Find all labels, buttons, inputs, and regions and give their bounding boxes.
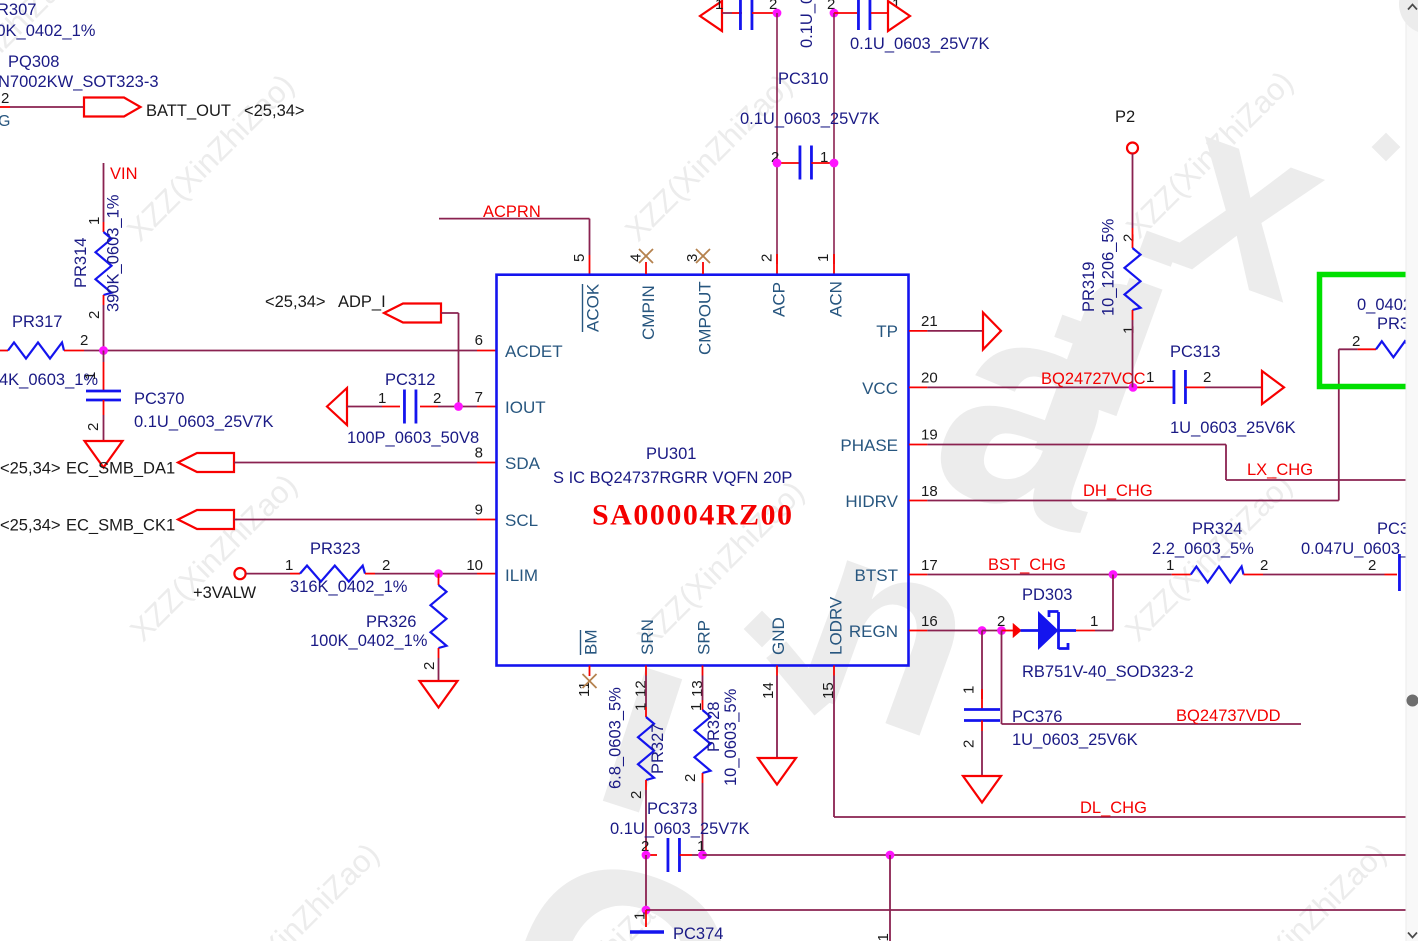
junction node BQ24727VCC bbox=[1129, 383, 1138, 392]
svg-text:2: 2 bbox=[86, 311, 103, 319]
svg-text:10: 10 bbox=[466, 557, 483, 574]
svg-text:P2: P2 bbox=[1115, 108, 1135, 126]
svg-text:17: 17 bbox=[921, 557, 938, 574]
wire PR319 to VCC net bbox=[1132, 320, 1134, 387]
wire PR326 to ground bbox=[438, 658, 440, 681]
wire red stub PC376 pin2 bbox=[981, 721, 983, 732]
resistor PR326 bbox=[431, 585, 447, 648]
wire BATT_OUT net bbox=[10, 106, 84, 108]
resistor PR3xx in green box (clipped) bbox=[1376, 341, 1418, 357]
resistor PR328 bbox=[695, 710, 711, 773]
wire DH_CHG horizontal bbox=[927, 500, 1338, 502]
wire red stub PC310 pin2 bbox=[777, 162, 800, 164]
svg-text:14: 14 bbox=[760, 682, 777, 699]
ground symbol GND pin14 bbox=[758, 758, 796, 785]
svg-text:0.1U_0603_25V7K: 0.1U_0603_25V7K bbox=[610, 820, 749, 838]
svg-text:ACP: ACP bbox=[770, 282, 789, 317]
wire SRN to PR327 bbox=[645, 676, 647, 708]
wire red stub PR314 pin2 bbox=[103, 295, 105, 305]
svg-text:9: 9 bbox=[475, 502, 483, 519]
svg-text:REGN: REGN bbox=[849, 622, 898, 641]
resistor PR327 bbox=[638, 717, 654, 780]
wire red stub ILIM pin10 bbox=[477, 573, 496, 575]
svg-text:2.2_0603_5%: 2.2_0603_5% bbox=[1152, 540, 1254, 558]
wire red stub PC374 pin1 bbox=[645, 910, 647, 927]
svg-text:2: 2 bbox=[961, 740, 978, 748]
capacitor PC376 bbox=[964, 708, 1000, 711]
wire red stub PR324 pin1 bbox=[1172, 574, 1191, 576]
svg-text:100K_0402_1%: 100K_0402_1% bbox=[310, 632, 428, 650]
scrollbar border bbox=[1405, 0, 1407, 941]
scrollbar thumb dot bbox=[1407, 695, 1418, 707]
svg-text:13: 13 bbox=[689, 680, 706, 697]
svg-text:DL_CHG: DL_CHG bbox=[1080, 799, 1147, 817]
svg-text:PC312: PC312 bbox=[385, 371, 435, 389]
resistor PR323 bbox=[300, 566, 365, 582]
svg-text:1: 1 bbox=[1121, 326, 1138, 334]
no-connect X pin 4 bbox=[639, 249, 653, 263]
svg-text:PU301: PU301 bbox=[646, 445, 696, 463]
wire red stub top-right cap pin1 bbox=[871, 12, 888, 14]
capacitor PC373 bbox=[667, 838, 670, 872]
junction node PC373/PR328 bbox=[698, 851, 707, 860]
wire PHASE net bbox=[927, 444, 1226, 446]
svg-text:CMPIN: CMPIN bbox=[639, 285, 658, 340]
wire top-left cap to arrow bbox=[722, 12, 732, 14]
off-page arrow VCC bbox=[1262, 371, 1284, 404]
wire diode anode down bbox=[1001, 631, 1003, 725]
capacitor PC374 top plate bbox=[630, 930, 664, 934]
svg-text:6: 6 bbox=[475, 332, 483, 349]
junction node x646 y910 bbox=[642, 906, 651, 915]
wire red stub top-left cap pin2 bbox=[752, 12, 777, 14]
svg-text:SA00004RZ00: SA00004RZ00 bbox=[592, 499, 794, 532]
diode PD303 schottky hook top bbox=[1049, 612, 1059, 618]
no-connect X pin 11 bbox=[583, 674, 597, 688]
wire to PR3xx pin2 bbox=[1339, 348, 1358, 350]
wire BST_CHG down to diode bbox=[1112, 575, 1114, 631]
wire red pin stub PQ308 pin2 bbox=[0, 106, 10, 108]
wire red stub CMPOUT pin3 no-connect bbox=[702, 262, 704, 274]
svg-text:2: 2 bbox=[382, 557, 390, 574]
svg-text:5: 5 bbox=[571, 254, 588, 262]
wire red stub PC310 pin1 bbox=[811, 162, 834, 164]
svg-text:PC3: PC3 bbox=[1377, 520, 1409, 538]
svg-text:1: 1 bbox=[961, 686, 978, 694]
wire red stub SRP pin13 bbox=[702, 666, 704, 676]
svg-text:1: 1 bbox=[86, 217, 103, 225]
svg-text:1U_0603_25V6K: 1U_0603_25V6K bbox=[1012, 731, 1138, 749]
svg-text:EC_SMB_CK1: EC_SMB_CK1 bbox=[66, 517, 175, 535]
junction node diode anode bbox=[997, 626, 1006, 635]
wire DH_CHG vertical to green box bbox=[1338, 349, 1340, 500]
wire ADP_I vertical to IOUT bbox=[458, 313, 460, 407]
svg-text:10_1206_5%: 10_1206_5% bbox=[1100, 218, 1118, 316]
svg-text:2: 2 bbox=[628, 791, 645, 799]
wire red stub PC3xx pin2 bbox=[1385, 574, 1398, 576]
svg-text:100P_0603_50V8: 100P_0603_50V8 bbox=[347, 429, 479, 447]
wire PC370 to ground bbox=[103, 415, 105, 441]
wire red stub PC370 pin1 bbox=[103, 362, 105, 391]
resistor PR324 bbox=[1191, 567, 1244, 583]
svg-text:1: 1 bbox=[633, 703, 650, 711]
wire red stub PR317 pin1 bbox=[0, 350, 8, 352]
svg-text:GND: GND bbox=[769, 617, 788, 655]
junction node ACN/PC310 bbox=[830, 159, 839, 168]
svg-text:VIN: VIN bbox=[110, 165, 138, 183]
svg-text:PR326: PR326 bbox=[366, 613, 416, 631]
svg-text:PQ308: PQ308 bbox=[8, 53, 59, 71]
junction node bus y855 x890 bbox=[886, 851, 895, 860]
svg-text:2: 2 bbox=[1352, 333, 1360, 350]
svg-text:IOUT: IOUT bbox=[505, 398, 546, 417]
wire red stub PR328 pin2 bbox=[702, 773, 704, 783]
wire SDA net bbox=[234, 462, 477, 464]
wire PC313 to arrow bbox=[1205, 386, 1262, 388]
svg-text:DH_CHG: DH_CHG bbox=[1083, 482, 1153, 500]
off-page connector BATT_OUT bbox=[84, 98, 141, 117]
svg-text:PR327: PR327 bbox=[649, 724, 667, 774]
wire P2 to PR319 bbox=[1132, 154, 1134, 229]
svg-text:+3VALW: +3VALW bbox=[193, 584, 257, 602]
wire ILIM net bbox=[375, 573, 477, 575]
svg-text:2: 2 bbox=[1121, 234, 1138, 242]
wire red stub PR323 pin2 bbox=[365, 573, 375, 575]
svg-text:8: 8 bbox=[475, 445, 483, 462]
wire red stub LODRV pin15 bbox=[833, 666, 835, 676]
wire PC376 to ground bbox=[981, 731, 983, 776]
svg-text:PC370: PC370 bbox=[134, 390, 184, 408]
junction node ILIM/PR326 bbox=[434, 569, 443, 578]
junction node BST_CHG bbox=[1109, 570, 1118, 579]
svg-text:1: 1 bbox=[1090, 613, 1098, 630]
highlight green box bbox=[1320, 275, 1418, 387]
wire red stub HIDRV pin18 bbox=[909, 500, 927, 502]
svg-text:PD303: PD303 bbox=[1022, 586, 1072, 604]
wire red stub PD303 pin2 bbox=[1002, 630, 1014, 632]
svg-text:1: 1 bbox=[1146, 369, 1154, 386]
wire red stub ACDET pin6 bbox=[477, 350, 496, 352]
wire red stub SDA pin8 bbox=[477, 462, 496, 464]
no-connect X pin 3 bbox=[696, 249, 710, 263]
svg-text:PR319: PR319 bbox=[1080, 262, 1098, 312]
wire PHASE corner down bbox=[1225, 445, 1227, 481]
svg-text:20: 20 bbox=[921, 370, 938, 387]
wire red stub PR327 pin1 bbox=[645, 707, 647, 717]
scrollbar track bbox=[1406, 0, 1418, 941]
svg-text:ADP_I: ADP_I bbox=[338, 293, 386, 311]
wire red stub ACN pin1 bbox=[833, 254, 835, 274]
svg-text:PR323: PR323 bbox=[310, 540, 360, 558]
svg-text:390K_0603_1%: 390K_0603_1% bbox=[105, 194, 123, 312]
svg-text:0.1U_0603_25V7K: 0.1U_0603_25V7K bbox=[740, 110, 879, 128]
svg-text:16: 16 bbox=[921, 613, 938, 630]
svg-text:CMPOUT: CMPOUT bbox=[696, 281, 715, 355]
op-amp U1 IC PU301 body bbox=[497, 275, 909, 666]
svg-text:2: 2 bbox=[1203, 369, 1211, 386]
svg-text:2: 2 bbox=[1368, 557, 1376, 574]
wire red stub PC373 pin2 horizontal bbox=[646, 854, 657, 856]
wire red stub PC376 pin1 bbox=[981, 689, 983, 710]
wire BST_CHG horizontal bbox=[927, 574, 1171, 576]
diode PD303 schottky hook bottom bbox=[1059, 643, 1069, 649]
svg-text:N7002KW_SOT323-3: N7002KW_SOT323-3 bbox=[0, 73, 159, 91]
svg-text:0.1U_0603_25V7K: 0.1U_0603_25V7K bbox=[798, 0, 816, 48]
wire PR324 to PC3xx bbox=[1263, 574, 1385, 576]
svg-text:2: 2 bbox=[1, 90, 9, 107]
wire IOUT net bbox=[438, 406, 477, 408]
svg-text:BATT_OUT: BATT_OUT bbox=[146, 102, 231, 120]
wire red stub IOUT pin7 bbox=[477, 406, 496, 408]
svg-text:ACOK: ACOK bbox=[584, 283, 603, 332]
wire red stub ACOK pin5 bbox=[589, 255, 591, 274]
svg-text:1U_0603_25V6K: 1U_0603_25V6K bbox=[1170, 419, 1296, 437]
svg-text:ILIM: ILIM bbox=[505, 566, 538, 585]
svg-text:HIDRV: HIDRV bbox=[845, 492, 898, 511]
svg-text:PC373: PC373 bbox=[647, 800, 697, 818]
wire red stub PC373 pin2 bbox=[645, 845, 647, 855]
svg-text:0.1U_0603_25V7K: 0.1U_0603_25V7K bbox=[134, 413, 273, 431]
wire SCL net bbox=[234, 519, 477, 521]
wire red stub VCC pin20 bbox=[909, 386, 927, 388]
resistor PR319 bbox=[1125, 248, 1141, 310]
wire +3VALW to PR323 bbox=[246, 573, 290, 575]
svg-text:PHASE: PHASE bbox=[840, 436, 898, 455]
capacitor PC312 bbox=[403, 390, 406, 424]
svg-text:100K_0402_1%: 100K_0402_1% bbox=[0, 22, 96, 40]
svg-text:BST_CHG: BST_CHG bbox=[988, 556, 1066, 574]
svg-text:12: 12 bbox=[633, 680, 650, 697]
svg-text:<25,34>: <25,34> bbox=[265, 293, 326, 311]
off-page connector EC_SMB_DA1 bbox=[178, 453, 234, 472]
wire red stub PR319 pin1 bbox=[1132, 310, 1134, 320]
svg-text:2: 2 bbox=[433, 390, 441, 407]
svg-text:SRP: SRP bbox=[695, 620, 714, 655]
svg-text:0.1U_0603_25V7K: 0.1U_0603_25V7K bbox=[850, 35, 989, 53]
capacitor PC3xx (clipped) bbox=[1398, 554, 1401, 591]
wire REGN net bbox=[927, 630, 982, 632]
svg-text:2: 2 bbox=[421, 662, 438, 670]
junction node IOUT/ADP_I bbox=[454, 402, 463, 411]
svg-text:2: 2 bbox=[997, 613, 1005, 630]
wire ACP vertical bbox=[776, 13, 778, 264]
svg-text:0.047U_0603_: 0.047U_0603_ bbox=[1301, 540, 1410, 558]
junction node ACP/PC310 bbox=[773, 159, 782, 168]
wire red stub PC373 pin1 bbox=[680, 854, 693, 856]
wire vertical x890 to bottom bbox=[889, 855, 891, 941]
svg-text:BQ24737VDD: BQ24737VDD bbox=[1176, 707, 1281, 725]
power port +3VALW bbox=[234, 568, 245, 579]
svg-text:ACN: ACN bbox=[827, 281, 846, 317]
wire red stub PD303 pin1 bbox=[1076, 630, 1095, 632]
wire red stub BTST pin17 bbox=[909, 574, 927, 576]
svg-text:2: 2 bbox=[682, 774, 699, 782]
wire BQ24727VCC net bbox=[927, 386, 1133, 388]
overline for ACOK bbox=[582, 284, 584, 332]
wire red stub ACP pin2 bbox=[776, 254, 778, 274]
watermark dot top-right corner bbox=[1399, 0, 1418, 34]
junction node ACN top bbox=[830, 9, 839, 18]
wire red stub PHASE pin19 bbox=[909, 444, 927, 446]
capacitor top-right bbox=[857, 0, 860, 30]
wire PC312 left bbox=[347, 406, 382, 408]
svg-text:2: 2 bbox=[80, 332, 88, 349]
svg-text:ACDET: ACDET bbox=[505, 342, 563, 361]
wire DL_CHG horizontal bbox=[834, 816, 1406, 818]
scrollbar arrow up bbox=[1408, 5, 1417, 10]
wire DL_CHG vertical bbox=[833, 676, 835, 818]
off-page connector ADP_I bbox=[384, 304, 441, 323]
overline for BM bbox=[580, 630, 582, 655]
svg-text:BM: BM bbox=[582, 630, 601, 656]
wire red stub SRN pin12 bbox=[645, 666, 647, 676]
svg-text:1: 1 bbox=[875, 933, 892, 941]
svg-text:EC_SMB_DA1: EC_SMB_DA1 bbox=[66, 460, 175, 478]
svg-text:<25,34>: <25,34> bbox=[244, 102, 305, 120]
wire red stub SCL pin9 bbox=[477, 519, 496, 521]
resistor PR317 bbox=[8, 343, 64, 359]
wire REGN to diode node bbox=[982, 630, 1002, 632]
wire red stub TP pin21 bbox=[909, 330, 927, 332]
svg-text:10_0603_5%: 10_0603_5% bbox=[722, 688, 740, 786]
wire red stub PR319 pin2 bbox=[1132, 228, 1134, 248]
svg-text:1: 1 bbox=[1166, 557, 1174, 574]
wire VIN vertical bbox=[103, 163, 105, 222]
svg-text:BTST: BTST bbox=[855, 566, 898, 585]
svg-text:SRN: SRN bbox=[638, 619, 657, 655]
capacitor PC370 bbox=[86, 390, 121, 393]
wire red stub GND pin14 bbox=[776, 666, 778, 676]
wire red stub PR324 pin2 bbox=[1244, 574, 1264, 576]
wire red stub PR3xx pin2 bbox=[1358, 348, 1376, 350]
svg-text:1: 1 bbox=[815, 254, 832, 262]
wire bus y910 bbox=[646, 909, 1406, 911]
wire red stub PC312 pin2 bbox=[420, 406, 438, 408]
capacitor top-left (value rotated) bbox=[739, 0, 742, 30]
diode PD303 cathode bar bbox=[1057, 612, 1060, 649]
diode PD303 anode lead bbox=[1021, 629, 1039, 632]
svg-text:PR317: PR317 bbox=[12, 313, 62, 331]
wire SRP to PR328 bbox=[702, 676, 704, 701]
svg-text:1: 1 bbox=[715, 0, 723, 13]
wire PD303 to BST_CHG corner bbox=[1095, 630, 1113, 632]
capacitor PC310 bbox=[799, 146, 802, 180]
wire red stub PR326 pin2 bbox=[438, 648, 440, 658]
svg-text:7: 7 bbox=[475, 389, 483, 406]
wire bus y855 bbox=[703, 854, 1407, 856]
off-page connector EC_SMB_CK1 bbox=[178, 510, 234, 529]
ground symbol PR326 bbox=[420, 681, 458, 708]
svg-text:6.8_0603_5%: 6.8_0603_5% bbox=[607, 687, 625, 789]
svg-text:316K_0402_1%: 316K_0402_1% bbox=[290, 578, 408, 596]
svg-text:2: 2 bbox=[1260, 557, 1268, 574]
svg-text:<25,34>: <25,34> bbox=[0, 460, 61, 478]
junction node VIN/ACDET bbox=[99, 346, 108, 355]
svg-text:S IC BQ24737RGRR VQFN 20P: S IC BQ24737RGRR VQFN 20P bbox=[553, 469, 792, 487]
wire REGN to PC376 bbox=[981, 631, 983, 700]
svg-text:1: 1 bbox=[82, 372, 99, 380]
svg-text:1: 1 bbox=[285, 557, 293, 574]
wire red stub PR328 pin1 bbox=[702, 700, 704, 710]
svg-text:LODRV: LODRV bbox=[827, 596, 846, 655]
test point P2 circle bbox=[1127, 143, 1138, 154]
svg-text:SCL: SCL bbox=[505, 511, 538, 530]
svg-text:VCC: VCC bbox=[862, 379, 898, 398]
wire PR327 to PC373 bbox=[645, 790, 647, 845]
svg-text:PC310: PC310 bbox=[778, 70, 828, 88]
wire red stub PC370 pin2 bbox=[103, 400, 105, 415]
svg-text:RB751V-40_SOD323-2: RB751V-40_SOD323-2 bbox=[1022, 663, 1194, 681]
svg-text:PR328: PR328 bbox=[705, 702, 723, 752]
wire ACDET net horizontal bbox=[84, 350, 477, 352]
wire red stub PC313 pin1 bbox=[1133, 386, 1174, 388]
svg-text:PC313: PC313 bbox=[1170, 343, 1220, 361]
capacitor PC313 bbox=[1173, 370, 1176, 404]
wire ACN vertical bbox=[833, 13, 835, 264]
wire red stub PR323 pin1 bbox=[290, 573, 300, 575]
wire ACPRN horizontal bbox=[439, 218, 590, 220]
wire red stub top-right cap pin2 bbox=[834, 12, 857, 14]
scrollbar arrow down bbox=[1408, 933, 1417, 938]
diode PD303 triangle bbox=[1038, 611, 1059, 650]
wire PC373 to SRP node bbox=[692, 854, 703, 856]
wire PR328 to bus bbox=[702, 783, 704, 855]
wire GND pin to ground bbox=[776, 676, 778, 759]
junction node REGN/PC376 bbox=[978, 626, 987, 635]
svg-text:LX_CHG: LX_CHG bbox=[1247, 461, 1313, 479]
wire TP net bbox=[927, 330, 983, 332]
ground symbol PC370 bbox=[85, 441, 123, 468]
red direction arrow PD303 bbox=[1014, 625, 1021, 637]
off-page arrow TP bbox=[983, 313, 1001, 350]
svg-text:PR314: PR314 bbox=[72, 238, 90, 288]
svg-text:21: 21 bbox=[921, 313, 938, 330]
junction node PC373 pin2 bbox=[642, 851, 651, 860]
svg-text:19: 19 bbox=[921, 427, 938, 444]
svg-text:G: G bbox=[0, 113, 10, 130]
svg-text:18: 18 bbox=[921, 483, 938, 500]
wire vertical x646 between buses bbox=[645, 855, 647, 910]
svg-text:PR307: PR307 bbox=[0, 1, 36, 19]
wire red stub CMPIN pin4 no-connect bbox=[645, 262, 647, 274]
wire BQ24737VDD horizontal bbox=[1002, 723, 1302, 725]
off-page arrow PC312 pin1 bbox=[327, 388, 347, 425]
svg-text:PC374: PC374 bbox=[673, 925, 723, 941]
junction node ACP top bbox=[773, 9, 782, 18]
wire red stub top-left cap pin1 bbox=[732, 12, 742, 14]
wire red stub PR327 pin2 bbox=[645, 780, 647, 790]
svg-text:PR324: PR324 bbox=[1192, 520, 1242, 538]
wire ADP_I horizontal bbox=[441, 312, 459, 314]
wire LX_CHG horizontal bbox=[1226, 479, 1406, 481]
svg-text:1: 1 bbox=[378, 390, 386, 407]
wire PR314 to node bbox=[103, 305, 105, 351]
svg-text:11: 11 bbox=[576, 681, 593, 697]
svg-text:TP: TP bbox=[876, 322, 898, 341]
wire red stub PR314 pin1 bbox=[103, 222, 105, 232]
wire red stub PR317 pin2 bbox=[64, 350, 84, 352]
resistor PR314 bbox=[96, 232, 112, 295]
wire red stub BM pin11 no-connect bbox=[589, 666, 591, 677]
diode PD303 cathode lead bbox=[1059, 629, 1077, 632]
off-page arrow top-left cap bbox=[700, 1, 722, 31]
ground symbol PC376 bbox=[963, 776, 1001, 803]
svg-text:<25,34>: <25,34> bbox=[0, 517, 61, 535]
off-page arrow top-right cap bbox=[888, 1, 910, 31]
svg-text:2: 2 bbox=[85, 423, 102, 431]
op-amp U1 IC PU301 body fill bbox=[497, 275, 909, 666]
wire red stub REGN pin16 bbox=[909, 630, 927, 632]
